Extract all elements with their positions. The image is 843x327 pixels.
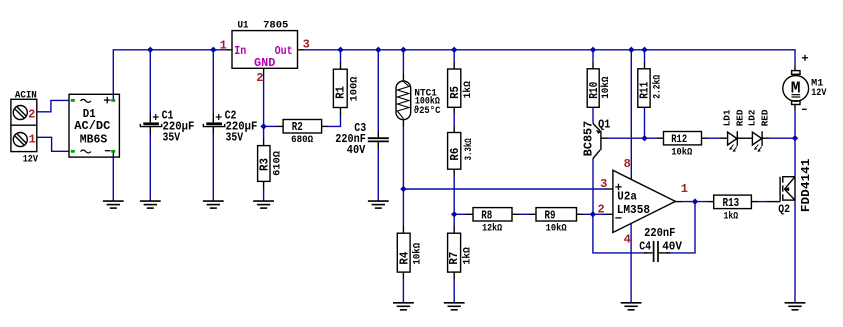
resistor R10 xyxy=(587,62,599,107)
wire R3 top xyxy=(263,126,265,138)
wire C4 branch: node pin2 down and right to C4 xyxy=(593,214,647,253)
svg-text:1kΩ: 1kΩ xyxy=(462,81,474,98)
capacitor C2 plates xyxy=(212,113,214,122)
svg-text:40V: 40V xyxy=(662,240,683,254)
mosfet Q2 gate lead xyxy=(767,201,780,203)
motor M1 bottom terminal xyxy=(792,101,800,105)
wire R2 to R1 bottom xyxy=(328,117,340,127)
wire R5 top xyxy=(453,50,455,62)
ground C3 xyxy=(368,201,389,208)
svg-text:3: 3 xyxy=(600,177,607,191)
svg-text:3.3kΩ: 3.3kΩ xyxy=(463,138,475,160)
svg-text:4: 4 xyxy=(624,233,631,247)
D1 pin marks (green) xyxy=(71,99,115,153)
svg-text:AC/DC: AC/DC xyxy=(74,119,110,133)
ground D1 xyxy=(103,201,124,208)
wire C3 bottom to ground xyxy=(377,148,379,201)
svg-text:R5: R5 xyxy=(448,86,462,99)
wire R11 bottom to node xyxy=(644,107,646,138)
svg-text:R1: R1 xyxy=(334,86,348,99)
svg-text:U2a: U2a xyxy=(617,190,637,204)
connector ACIN screw terminal 2 xyxy=(13,106,27,120)
wire Q2 source to ground xyxy=(794,200,796,302)
wire NTC1 bottom to node xyxy=(402,127,404,190)
svg-text:12V: 12V xyxy=(811,88,826,99)
resistor R8 xyxy=(466,208,519,221)
wire LD2 to M1 node xyxy=(769,137,795,139)
wire M1 bottom to node xyxy=(794,109,796,138)
LED LD2 lead xyxy=(762,137,769,139)
ground R3 xyxy=(253,201,274,208)
wire R13 to Q2 gate xyxy=(759,201,767,203)
wire R4 top xyxy=(402,189,404,226)
mosfet Q2 bulk arrow xyxy=(784,187,790,191)
wire node R11 to R12 xyxy=(645,137,658,139)
mosfet Q2 gate bar xyxy=(779,177,781,202)
node rail-pin8 xyxy=(628,47,634,53)
wire node to R8 xyxy=(454,213,466,215)
transistor Q1 base lead xyxy=(601,137,607,139)
node rail-NTC1 xyxy=(400,47,406,53)
node rail-R1 xyxy=(337,47,343,53)
capacitor C1 plus xyxy=(153,114,159,120)
svg-text:12kΩ: 12kΩ xyxy=(482,223,502,235)
wire C1 top xyxy=(149,50,151,113)
node rail-C2-U1 xyxy=(210,47,216,53)
LED LD2 emission arrows xyxy=(754,145,762,152)
node pin1-R13-C4 xyxy=(692,198,698,204)
resistor R7 xyxy=(448,226,461,279)
svg-text:C4: C4 xyxy=(639,240,651,254)
svg-text:1: 1 xyxy=(681,182,688,196)
resistor R2 xyxy=(277,120,329,134)
svg-text:3: 3 xyxy=(303,38,310,52)
wire C1 bottom to ground xyxy=(149,133,151,201)
svg-text:R12: R12 xyxy=(671,134,687,146)
svg-text:R7: R7 xyxy=(447,252,461,265)
LED LD2 cathode bar xyxy=(761,131,763,146)
svg-text:FDD4141: FDD4141 xyxy=(799,159,813,213)
wire R5 to R6 xyxy=(453,115,455,126)
mosfet Q2 drain-source link xyxy=(794,177,796,200)
svg-text:BC857: BC857 xyxy=(582,121,596,156)
svg-text:35V: 35V xyxy=(163,131,181,145)
svg-text:40V: 40V xyxy=(347,143,366,157)
capacitor C4 plates xyxy=(653,241,655,262)
wire R3 bottom to ground xyxy=(263,189,265,201)
svg-text:10kΩ: 10kΩ xyxy=(546,223,567,235)
connector ACIN box xyxy=(11,99,37,151)
U1 pin stubs xyxy=(225,50,304,76)
node rail-R10 xyxy=(590,47,596,53)
thermistor NTC1 zigzag xyxy=(397,82,409,119)
node rail-C1 xyxy=(147,47,153,53)
svg-text:680Ω: 680Ω xyxy=(291,135,313,146)
connector ACIN screw terminal 1 xyxy=(13,133,27,147)
wire top rail left segment D1+ to U1 In xyxy=(113,50,225,101)
ground R4 xyxy=(393,303,414,310)
svg-text:R9: R9 xyxy=(545,209,556,223)
ground opamp pin4 C4 xyxy=(621,303,642,310)
svg-text:610Ω: 610Ω xyxy=(273,151,284,176)
svg-text:GND: GND xyxy=(254,56,275,70)
D1 AC symbol bottom xyxy=(81,150,91,153)
wire top rail right segment U1 Out to M1 xyxy=(305,50,796,65)
motor M1 body xyxy=(783,76,809,102)
wire R4 bottom to ground xyxy=(402,279,404,302)
wire ACIN pin1 to D1 xyxy=(37,137,69,151)
resistor R1 xyxy=(333,62,347,117)
wire opamp pin4 to ground xyxy=(630,223,632,302)
op-amp input stubs xyxy=(605,188,613,190)
wire node to Q2 drain xyxy=(794,138,796,177)
wire R10 top xyxy=(592,50,594,62)
svg-text:220nF: 220nF xyxy=(644,226,675,240)
svg-text:Out: Out xyxy=(275,44,293,58)
transistor Q1 emitter xyxy=(593,124,600,131)
svg-text:R8: R8 xyxy=(481,209,492,223)
mosfet Q2 source stub xyxy=(783,199,795,201)
LED LD1 triangle xyxy=(728,132,737,145)
resistor R4 xyxy=(397,226,410,279)
wire ACIN pin2 to D1 xyxy=(37,100,69,111)
op-amp minus input sign xyxy=(615,217,621,219)
wire R7 top xyxy=(453,214,455,226)
wire opamp pin8 supply xyxy=(630,50,632,180)
ground C1 xyxy=(140,201,161,208)
wire R7 bottom to ground xyxy=(453,279,455,302)
node rail-C3 xyxy=(375,47,381,53)
mosfet Q2 bulk diagonals xyxy=(785,177,796,190)
op-amp plus input sign xyxy=(615,184,621,190)
mosfet Q2 channel dashes xyxy=(782,176,784,183)
svg-text:Q2: Q2 xyxy=(778,204,790,216)
M1 plus sign xyxy=(802,55,808,61)
resistor R6 xyxy=(448,126,461,177)
transistor Q1 collector xyxy=(593,150,600,159)
svg-text:10kΩ: 10kΩ xyxy=(671,147,692,159)
ground Q2 source xyxy=(785,303,806,310)
capacitor C3 plates xyxy=(368,137,389,139)
svg-text:7805: 7805 xyxy=(263,20,288,31)
svg-text:MB6S: MB6S xyxy=(80,132,108,146)
transistor Q1 emitter arrow xyxy=(596,130,601,134)
node R11-R12-Q1base xyxy=(641,135,647,141)
D1 AC symbol top xyxy=(81,99,91,102)
svg-text:35V: 35V xyxy=(226,131,244,145)
svg-text:2.2kΩ: 2.2kΩ xyxy=(652,75,664,99)
ground R7 xyxy=(444,303,465,310)
wire R6 bottom to node xyxy=(453,177,455,215)
svg-text:LM358: LM358 xyxy=(617,203,650,217)
wire R8 to R9 xyxy=(519,213,529,215)
rectifier D1 box xyxy=(69,94,119,157)
wire node NTC to opamp pin3 xyxy=(403,188,605,190)
wire node GND-R2-R3 left xyxy=(264,125,277,127)
svg-text:ϑ25°C: ϑ25°C xyxy=(414,105,441,117)
D1 plus symbol xyxy=(104,97,111,104)
wire R10 bottom to Q1 emitter xyxy=(592,107,594,123)
node NTC-R4-pin3 xyxy=(400,186,406,192)
wire U1 GND down xyxy=(263,76,265,126)
svg-text:100Ω: 100Ω xyxy=(350,77,361,102)
M1 minus sign xyxy=(802,108,807,110)
svg-text:M: M xyxy=(791,80,801,99)
op-amp output stub xyxy=(675,201,682,203)
svg-text:1: 1 xyxy=(220,39,227,53)
svg-text:RED: RED xyxy=(735,109,745,126)
svg-text:R2: R2 xyxy=(292,120,303,134)
ground C2 xyxy=(203,201,224,208)
wire R12 to LD1 xyxy=(708,137,720,139)
node rail-R11 xyxy=(641,47,647,53)
thermistor NTC1 body xyxy=(396,81,411,120)
LED LD1 cathode bar xyxy=(736,131,738,146)
LED LD1 emission arrows xyxy=(729,145,737,152)
node R6-R7-R8 xyxy=(451,211,457,217)
resistor R11 xyxy=(638,62,650,107)
svg-text:R13: R13 xyxy=(723,196,740,210)
wire Q1 collector down to node xyxy=(592,159,594,215)
svg-text:R4: R4 xyxy=(397,252,411,265)
svg-text:2: 2 xyxy=(598,202,605,216)
svg-text:R6: R6 xyxy=(448,148,462,161)
svg-text:12V: 12V xyxy=(23,155,38,166)
svg-text:2: 2 xyxy=(256,71,263,85)
resistor R3 xyxy=(258,139,270,189)
svg-text:R10: R10 xyxy=(587,82,601,99)
motor M1 top terminal xyxy=(792,71,800,75)
svg-text:U1: U1 xyxy=(238,20,249,31)
wire NTC1 top xyxy=(402,50,404,74)
svg-text:R3: R3 xyxy=(258,158,272,171)
transistor Q1 base bar xyxy=(600,131,602,150)
resistor R5 xyxy=(448,62,461,115)
node pin2-Q1-C4 xyxy=(590,211,596,217)
svg-text:LD1: LD1 xyxy=(723,109,733,126)
wire C2 top xyxy=(212,50,214,113)
D1 minus symbol xyxy=(105,150,111,152)
wire C3 top xyxy=(377,50,379,131)
node rail-R5 xyxy=(451,47,457,53)
resistor R13 xyxy=(708,195,759,209)
motor M1 commutator lines xyxy=(792,94,801,96)
svg-text:10kΩ: 10kΩ xyxy=(600,77,612,99)
svg-text:ACIN: ACIN xyxy=(15,90,37,101)
svg-text:1: 1 xyxy=(29,133,36,147)
node M1-LD2-Q2 xyxy=(792,135,798,141)
mosfet Q2 drain stub xyxy=(783,176,795,178)
capacitor C1 plates xyxy=(149,113,151,122)
svg-text:LD2: LD2 xyxy=(748,110,758,127)
wire Q1 base to node R11 xyxy=(607,137,645,139)
wire R11 top xyxy=(644,50,646,62)
svg-text:Q1: Q1 xyxy=(598,118,610,132)
resistor R12 xyxy=(657,132,708,145)
node U1GND-R2-R3 xyxy=(260,123,266,129)
svg-text:10kΩ: 10kΩ xyxy=(411,243,423,265)
wire opamp pin1 out xyxy=(682,201,708,203)
op-amp U2a triangle xyxy=(613,170,676,232)
resistor R9 xyxy=(529,208,583,221)
capacitor C2 plus xyxy=(216,114,222,120)
svg-text:2: 2 xyxy=(28,107,35,121)
svg-text:1kΩ: 1kΩ xyxy=(724,210,739,222)
regulator U1 box xyxy=(232,31,298,69)
wire C4 right to pin1 node xyxy=(666,202,695,253)
wire R9 to opamp pin2 xyxy=(583,213,605,215)
svg-text:RED: RED xyxy=(760,109,770,126)
wire R1 top xyxy=(340,50,342,62)
wire D1 minus to ground xyxy=(112,151,114,200)
wire C2 bottom to ground xyxy=(212,133,214,201)
LED LD1 lead xyxy=(720,137,728,139)
LED LD2 triangle xyxy=(752,132,761,145)
svg-text:1kΩ: 1kΩ xyxy=(461,247,473,264)
svg-text:R11: R11 xyxy=(638,82,652,99)
svg-text:8: 8 xyxy=(624,157,631,171)
svg-text:In: In xyxy=(234,44,246,58)
